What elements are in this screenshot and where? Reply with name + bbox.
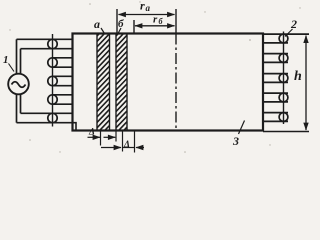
extension tick B xyxy=(115,131,117,142)
AC source 1 xyxy=(8,74,29,95)
right coil turn R5 xyxy=(263,113,289,122)
svg-text:а: а xyxy=(94,17,100,31)
label r_b xyxy=(153,14,164,27)
left coil turn L1 xyxy=(17,39,73,48)
svg-text:2: 2 xyxy=(290,17,297,31)
extension tick A xyxy=(100,131,102,146)
dimension delta 1 xyxy=(88,136,116,138)
left coil turn L4 xyxy=(48,95,73,104)
svg-text:Δ: Δ xyxy=(88,128,95,138)
label 3 + leader xyxy=(232,121,245,149)
right coil turn R3 xyxy=(263,74,289,83)
label r_a xyxy=(140,0,151,13)
svg-text:r: r xyxy=(140,0,145,13)
svg-text:1: 1 xyxy=(3,54,9,66)
right coil centerline xyxy=(283,32,285,125)
feeder wire outer xyxy=(16,39,18,122)
svg-text:Δ: Δ xyxy=(123,140,130,150)
dimension r_a xyxy=(117,9,175,34)
right coil turn R2 xyxy=(263,54,289,63)
dimension r_b xyxy=(134,20,175,34)
paper background xyxy=(0,0,311,161)
right coil turn R1 xyxy=(263,34,310,43)
left coil turn L2 xyxy=(48,58,73,67)
feeder bottom hook xyxy=(73,123,77,131)
svg-text:r: r xyxy=(153,14,158,26)
svg-text:3: 3 xyxy=(232,134,239,148)
zone b hatched strip xyxy=(116,34,127,131)
label 2 + leader xyxy=(285,17,297,37)
left coil turn L3 xyxy=(48,76,73,85)
dimension h xyxy=(263,36,309,132)
dimension delta 2 xyxy=(101,147,144,149)
axis centerline xyxy=(175,9,177,131)
extension tick D xyxy=(134,131,136,153)
workpiece 3 outline xyxy=(73,34,264,131)
zone a hatched strip xyxy=(97,34,110,131)
right coil turn R4 xyxy=(263,93,289,102)
left coil centerline xyxy=(52,34,54,127)
svg-text:а: а xyxy=(146,3,151,13)
label 1 + leader xyxy=(3,54,14,72)
label b + leader xyxy=(118,18,124,34)
svg-text:h: h xyxy=(294,69,302,84)
extension tick C xyxy=(122,131,124,152)
feeder wire inner xyxy=(20,49,22,114)
label a + leader xyxy=(94,17,105,34)
left coil turn L5 xyxy=(17,113,73,122)
